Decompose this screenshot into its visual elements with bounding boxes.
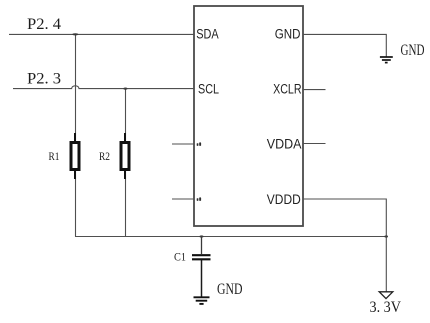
- svg-text:VDDD: VDDD: [267, 192, 301, 207]
- wire P2.3 net to SCL with hop over R1 wire: [13, 86, 194, 89]
- svg-text:C1: C1: [174, 250, 186, 264]
- wire C1 bottom lead to ground: [201, 260, 203, 297]
- wire vertical from P2.3 to R2: [125, 89, 127, 142]
- wire GND pin to ground: [303, 34, 386, 56]
- pin number s3: [197, 142, 201, 146]
- wire C1 top lead: [201, 237, 203, 255]
- IC U1 body: [194, 6, 303, 226]
- svg-text:VDDA: VDDA: [267, 136, 302, 151]
- ground symbol top right: [380, 57, 393, 63]
- svg-text:P2. 3: P2. 3: [27, 71, 61, 88]
- junction P2.4/R1: [72, 33, 78, 35]
- wire VDDA stub: [303, 143, 326, 145]
- svg-text:P2. 4: P2. 4: [27, 16, 61, 33]
- wire P2.4 net to SDA: [9, 33, 194, 35]
- svg-text:XCLR: XCLR: [273, 82, 302, 97]
- junction rail/C1: [200, 235, 204, 237]
- 3.3V power arrow: [379, 292, 393, 299]
- wire R2 bottom to bottom rail: [125, 171, 127, 237]
- capacitor C1 plates: [192, 255, 211, 259]
- resistor R1: [71, 133, 79, 179]
- wire pin s4 stub: [172, 198, 194, 200]
- wire bottom rail: [75, 236, 386, 238]
- svg-text:GND: GND: [401, 42, 425, 59]
- wire vertical from P2.4 to R1: [75, 34, 77, 142]
- svg-text:GND: GND: [275, 26, 301, 41]
- resistor R2: [121, 133, 129, 179]
- junction rail/3.3V: [384, 235, 388, 237]
- svg-text:R2: R2: [99, 149, 110, 163]
- junction P2.3/R2: [123, 88, 127, 90]
- svg-text:GND: GND: [217, 281, 243, 298]
- svg-text:3. 3V: 3. 3V: [370, 299, 402, 316]
- wire R1 bottom to bottom rail: [75, 171, 77, 237]
- pin number s4: [197, 197, 201, 201]
- wire VDDD pin to 3.3V: [303, 199, 386, 292]
- svg-text:SDA: SDA: [196, 26, 218, 41]
- wire XCLR stub: [303, 89, 326, 91]
- ground symbol below C1: [194, 297, 210, 304]
- svg-text:SCL: SCL: [198, 81, 219, 96]
- wire pin s3 stub: [172, 143, 194, 145]
- svg-text:R1: R1: [49, 149, 60, 163]
